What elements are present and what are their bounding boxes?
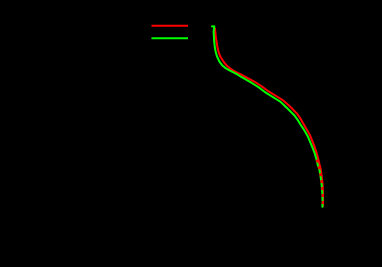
legend red line	[152, 25, 189, 27]
green curve	[212, 26, 323, 206]
legend green line	[152, 37, 189, 39]
red dashed overlay on overlapping tail	[317, 160, 323, 207]
red curve	[215, 29, 323, 207]
